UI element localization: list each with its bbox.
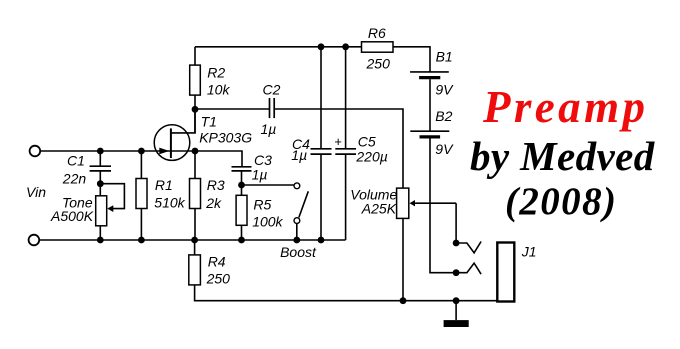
svg-text:B1: B1 bbox=[436, 49, 453, 65]
svg-text:1µ: 1µ bbox=[291, 147, 307, 163]
svg-text:R1: R1 bbox=[155, 177, 173, 193]
svg-text:by Medved: by Medved bbox=[470, 133, 655, 179]
svg-text:R6: R6 bbox=[368, 25, 386, 41]
svg-text:Vin: Vin bbox=[26, 184, 46, 200]
svg-text:10k: 10k bbox=[207, 81, 231, 97]
svg-text:250: 250 bbox=[366, 56, 391, 72]
svg-text:(2008): (2008) bbox=[505, 180, 617, 223]
svg-text:KP303G: KP303G bbox=[199, 129, 252, 145]
svg-text:100k: 100k bbox=[252, 213, 283, 229]
svg-text:R3: R3 bbox=[207, 177, 225, 193]
svg-text:1µ: 1µ bbox=[261, 121, 277, 137]
svg-text:1µ: 1µ bbox=[252, 167, 268, 183]
svg-text:22n: 22n bbox=[62, 170, 87, 186]
svg-text:2k: 2k bbox=[205, 195, 222, 211]
svg-text:C2: C2 bbox=[263, 82, 281, 98]
svg-text:510k: 510k bbox=[154, 194, 185, 210]
svg-text:C1: C1 bbox=[67, 152, 85, 168]
svg-text:T1: T1 bbox=[201, 113, 217, 129]
svg-text:C5: C5 bbox=[358, 134, 376, 150]
svg-text:R5: R5 bbox=[253, 197, 271, 213]
svg-text:9V: 9V bbox=[435, 82, 454, 98]
svg-text:R4: R4 bbox=[208, 253, 226, 269]
svg-text:Boost: Boost bbox=[280, 244, 317, 260]
svg-text:J1: J1 bbox=[521, 244, 537, 260]
svg-text:B2: B2 bbox=[435, 108, 452, 124]
svg-text:+: + bbox=[334, 134, 342, 149]
svg-text:250: 250 bbox=[206, 270, 231, 286]
svg-text:R2: R2 bbox=[207, 64, 225, 80]
svg-text:A500K: A500K bbox=[50, 208, 94, 224]
svg-text:Preamp: Preamp bbox=[482, 82, 648, 132]
svg-text:220µ: 220µ bbox=[355, 148, 387, 164]
svg-text:A25K: A25K bbox=[361, 201, 397, 217]
svg-text:9V: 9V bbox=[435, 141, 454, 157]
